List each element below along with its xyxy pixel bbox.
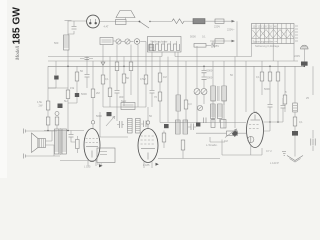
terminal marks lower right [282,152,286,156]
wire [130,71,132,96]
svg-text:Sicherung 0,2A trage: Sicherung 0,2A trage [255,44,280,48]
wire selector feed x270 [272,44,274,62]
svg-text:1M: 1M [163,75,167,79]
IF transformer T1 core [218,86,219,101]
wire with arrow lower [210,39,235,48]
vertical feeder x77 [76,66,78,72]
mains plug symbol [294,45,308,61]
resistor R22 [293,112,303,126]
resistor R8 [91,89,95,98]
capacitor C14 pair [141,121,148,128]
svg-text:500: 500 [54,41,59,45]
wire [67,99,69,131]
gang capacitor C4 [134,39,146,45]
wire top bus [68,20,87,22]
resistor R20 [276,61,280,122]
bus line upper y56 [48,44,252,57]
resistor R7 [75,72,79,81]
capacitor C17 [268,105,273,123]
svg-text:0,5M: 0,5M [140,77,146,81]
capacitor C15 pair [188,124,196,131]
jack housing top [116,11,136,25]
potentiometer arrow [106,116,115,126]
speaker terminals [24,129,26,159]
svg-text:5000: 5000 [264,87,270,91]
vertical feeder x48 [47,66,49,101]
IF transformer T1 winding a [211,61,216,123]
resistor R11 [115,62,119,71]
wire [122,41,125,43]
resistor R19 [268,66,272,104]
switch S1 mains [139,21,151,28]
resistor R4 1.5k [37,100,50,110]
vertical feeder x152 with cap C8 [150,52,155,107]
resistor R13 [129,62,133,71]
wire [123,83,125,106]
svg-text:0,1: 0,1 [299,120,303,124]
wire [159,101,161,123]
vertical feeder x68 [67,66,69,90]
vertical feeder x138 [137,45,139,108]
label row [190,35,206,39]
misc labels sprinkled [70,73,287,118]
svg-text:Spannungswahler ~=: Spannungswahler ~= [253,40,278,44]
wire [145,84,147,107]
wire [159,82,161,92]
fuse dark block [301,62,308,66]
loudspeaker [32,133,46,153]
wire to tube1 top cap [92,98,94,121]
vertical feeder x87 with cap [80,57,90,89]
volume pot R27 [196,129,246,143]
capacitor C6 dark [75,93,79,97]
svg-text:2M: 2M [96,91,100,95]
fuse dark block lower [292,126,298,157]
vertical feeder x246 tube3 [245,61,247,112]
wave switch box [148,37,182,53]
svg-text:L 143 P: L 143 P [270,161,279,165]
resistor R3 horizontal [194,44,206,48]
vertical feeder x186 [185,61,187,100]
svg-text:0,1: 0,1 [105,77,109,81]
capacitor C10 stack [202,66,213,88]
resistor R21 [283,66,287,112]
resistor R6 [66,90,70,99]
bus line mid y61 [48,44,298,62]
IF transformer T2 winding b [218,101,225,128]
wire [102,84,104,107]
dark blob af [164,124,169,128]
horizontal bus y122 [160,122,246,124]
box small above tube2 [121,103,135,110]
capacitor C12 tube1 left [69,131,76,143]
wire [303,65,305,68]
trimmer C9 [194,46,200,123]
wire [47,125,49,131]
electrolytic E1 hatched [128,119,133,134]
vertical feeder x160 [159,57,161,74]
dial lamp La [87,15,109,28]
wire bottom mid [100,112,128,137]
svg-text:5000: 5000 [81,92,87,96]
resistor R25 right of tube2 [162,131,166,149]
diode D1 [101,62,105,66]
resistor R5 [46,117,50,125]
wire antenna lead vertical [67,21,69,67]
tube V1 output [84,129,102,167]
wire [177,111,179,123]
svg-text:15k: 15k [70,86,75,90]
wire top bus segment [150,21,172,23]
wire speaker top [26,130,57,132]
capacitor C1 [68,21,77,34]
vertical feeder x254 [253,66,255,112]
model label Modell 185 GW [12,7,23,61]
junction dots on bus [67,66,305,68]
resistor R17 [184,100,188,109]
wire [68,97,77,103]
resistor R15 [158,73,162,82]
IF transformer T1 winding b [222,61,227,105]
svg-text:Netz: Netz [121,99,127,103]
resistor R26 [181,140,185,150]
svg-text:220V~: 220V~ [227,28,235,32]
wire and capacitor C5 [206,41,214,48]
resistor R18 [260,61,264,95]
paper background [0,0,320,178]
vertical feeder x117 [116,45,118,63]
wire and capacitor C7 [115,71,120,108]
wire [113,40,116,42]
svg-text:L 185: L 185 [143,163,150,167]
svg-text:5000: 5000 [207,69,213,73]
resistor R14 [144,75,148,84]
svg-text:0,3: 0,3 [188,102,192,106]
vertical feeder x110 [109,57,111,89]
vertical feeder x146 [145,42,147,76]
svg-text:Wellenschalter: Wellenschalter [151,40,168,44]
bottom box left [60,148,115,163]
dark diode blob left [107,112,112,116]
svg-text:5000: 5000 [96,114,102,118]
wire right links [264,122,284,131]
svg-text:2W: 2W [39,104,43,108]
svg-text:CY 2: CY 2 [266,149,272,153]
wire selector feed x237 [236,21,238,56]
svg-text:0,1: 0,1 [202,35,206,39]
trimmer C2 [116,39,121,44]
small caps row above tube3 [204,118,227,129]
wire speaker to transformer [46,131,55,156]
vertical feeder x168 [167,57,169,123]
horizontal link y130 left [44,130,84,132]
wire [185,109,187,123]
svg-text:5H: 5H [64,99,67,103]
horizontal bus y107 mid [103,106,146,108]
svg-text:300: 300 [119,95,124,99]
trimmer C11 [201,89,207,105]
resistor R16 [158,92,162,101]
voltage selector table [252,24,299,49]
resistor R23 above transformer [55,112,59,130]
wire top bus segment [99,21,139,23]
heater wiring box [222,140,262,156]
right leg choke L3 [293,66,298,112]
vertical feeder x103 [102,45,104,76]
trimmer C3 [125,39,130,44]
antenna terminal [65,20,72,22]
resistor R12 [122,74,126,83]
output transformer T3 core [60,128,61,155]
capacitor C18 [281,98,286,122]
vertical feeder x93 tube1 grid [92,61,94,89]
AF transformer T4 winding a [176,120,181,134]
tube V2 mixer [138,107,159,168]
small oval cap near bus [80,58,93,60]
svg-text:L-Tonabn.: L-Tonabn. [206,143,218,147]
vertical feeder x178 [177,52,179,95]
capacitor C13 pair [117,107,124,128]
choke dark blob [48,61,68,108]
wire [131,41,134,43]
ground chassis symbol [287,156,303,163]
vertical feeder x131 [130,45,132,63]
wire tube2 right link [158,150,220,159]
output transformer T3 secondary [62,129,66,154]
wire y142 [210,137,225,142]
wire [76,81,78,93]
dark diode blob [232,130,239,137]
bus line main y66 [48,65,305,67]
trimmer C16 [197,105,202,110]
coil L2 hatched [176,95,181,111]
resistor R24 [76,136,80,153]
bandfilter box [100,38,113,45]
horizontal link y88 left [48,87,56,89]
wire [47,110,49,117]
wire speaker bottom [26,155,60,157]
svg-text:5000: 5000 [190,35,196,39]
svg-text:185 GW: 185 GW [12,7,23,45]
wire with arrow to selector [205,19,235,29]
svg-text:0,1: 0,1 [256,75,260,79]
junction dots bottom left [47,130,69,132]
resistor R2 ballast dark [193,19,205,24]
output transformer T3 primary [55,129,59,154]
top cap tube1 [91,121,94,129]
vertical feeder x235 [234,57,236,129]
dark blob right [196,123,200,127]
electrolytic E2 hatched [136,119,141,134]
tube V3 rectifier [247,112,273,155]
resistor R9 [101,75,105,84]
svg-text:1,5k: 1,5k [37,100,43,104]
svg-text:L 185: L 185 [84,165,91,169]
AF transformer T4 winding b [183,120,188,134]
svg-text:4 AT: 4 AT [104,25,110,29]
antenna trimmer symbol right [306,66,315,151]
svg-text:110 125 150 220 240: 110 125 150 220 240 [253,24,278,28]
svg-text:Modell: Modell [16,45,21,61]
junction dots right [269,121,279,123]
IF transformer T2 winding a [211,104,216,119]
svg-text:220V: 220V [214,25,220,29]
svg-text:1M: 1M [224,139,228,143]
svg-text:5000: 5000 [207,76,213,80]
wire [184,20,193,22]
resistor R10 [108,88,112,97]
resistor R1 [172,19,184,24]
wire [109,97,111,108]
svg-text:220V: 220V [294,54,300,58]
vertical feeder x124 [123,57,125,75]
coil L1 antenna coil [54,35,69,50]
